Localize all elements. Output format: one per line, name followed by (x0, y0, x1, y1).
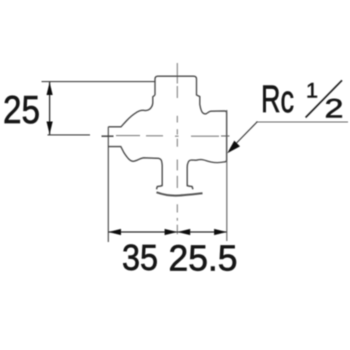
dimension 25: top extension line (42, 81, 156, 83)
dimension 25: bottom extension line (48, 134, 91, 136)
svg-text:25: 25 (3, 89, 40, 132)
fitting body right outline (top port to right port face and bottom-right foot) (155, 76, 227, 189)
horizontal centerline (116, 135, 230, 138)
bottom dimension: middle right-pointing arrowhead (165, 229, 178, 235)
bottom dimension: left extension line (also left stub face) (107, 127, 109, 242)
leader line (237, 122, 258, 144)
leader underline (256, 121, 348, 123)
dimension 25: vertical dimension line (49, 82, 51, 135)
bottom dimension: right extension line (also right port face) (226, 110, 228, 241)
bottom dimension line (108, 231, 227, 233)
svg-text:Rc: Rc (261, 79, 294, 121)
svg-text:35: 35 (122, 237, 158, 278)
label fraction slash (306, 80, 342, 117)
dimension 25: down arrowhead (47, 122, 53, 135)
dimension 25: up arrowhead (47, 82, 53, 95)
centerline dark dash at left stub (102, 135, 114, 137)
fitting body lower-left outline (stub bottom to bottom-left foot) (108, 147, 162, 190)
svg-text:25.5: 25.5 (169, 238, 238, 279)
bottom outlet bell rim (157, 192, 203, 195)
fitting body left outline (top port flare down to left stub) (108, 95, 155, 127)
vertical centerline (176, 63, 178, 234)
bottom outlet bell right foot (187, 185, 193, 190)
svg-text:1: 1 (306, 80, 318, 103)
bottom dimension: right arrowhead (214, 229, 227, 235)
bottom dimension: middle left-pointing arrowhead (177, 229, 190, 235)
leader arrowhead (227, 141, 240, 154)
bottom dimension: left arrowhead (108, 229, 121, 235)
bottom outlet bell left foot (157, 185, 163, 190)
svg-text:2: 2 (325, 94, 344, 124)
